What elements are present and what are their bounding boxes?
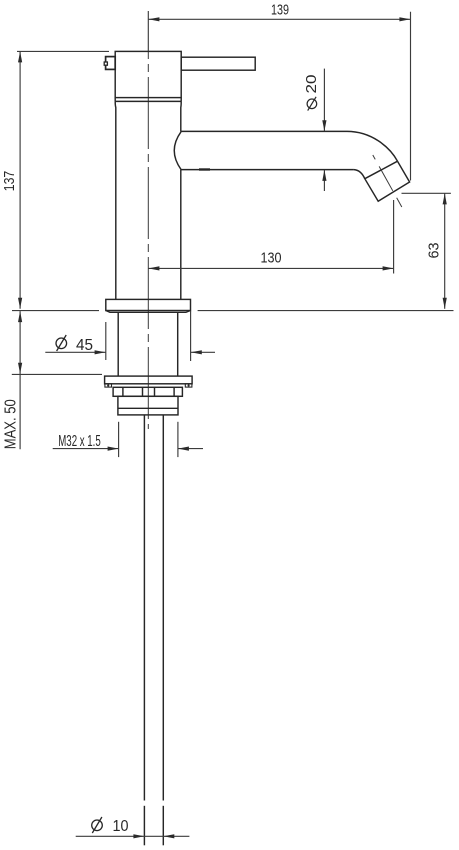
arrow 139 left	[148, 17, 159, 21]
svg-text:MAX. 50: MAX. 50	[3, 399, 20, 449]
dim d45 extension left	[105, 322, 107, 360]
outlet centerline	[373, 155, 402, 207]
mounting washer	[105, 376, 193, 384]
spout outlet aerator	[365, 161, 410, 201]
dim max50 extension bottom	[12, 373, 102, 375]
svg-text:130: 130	[261, 249, 282, 266]
spout inner bend curve	[354, 170, 365, 179]
svg-text:10: 10	[113, 818, 129, 835]
arrow 137 up	[18, 51, 22, 62]
handle head	[115, 51, 181, 97]
gland ring flats	[122, 387, 124, 396]
handle neck ring	[115, 100, 181, 102]
dim d10 line	[76, 835, 190, 837]
dia symbol of d45	[56, 338, 67, 349]
dim d45 extension right	[190, 311, 192, 361]
dim 137 extension top	[17, 50, 109, 52]
dim 139 extension left	[147, 11, 149, 51]
arrow m32 left	[178, 447, 189, 451]
arrow d20 up	[322, 170, 326, 181]
weld dash on spout bottom	[199, 168, 210, 170]
dim d45 line left	[45, 351, 105, 353]
dim 130 line	[148, 267, 393, 269]
arrow d45 right	[95, 350, 106, 354]
set screw	[106, 57, 116, 70]
spout end cap arc	[174, 132, 181, 170]
arrow max50 down	[18, 363, 22, 374]
body right wall upper	[180, 101, 182, 131]
dim m32 line right	[178, 448, 203, 450]
arrow d10 left	[163, 834, 174, 838]
arrow d20 down	[322, 120, 326, 131]
body left wall	[114, 101, 117, 299]
dim 130 extension right	[393, 200, 395, 274]
washer foot right	[185, 384, 192, 387]
svg-text:139: 139	[271, 1, 289, 18]
lever	[181, 57, 255, 70]
dim 63 line	[444, 193, 446, 308]
svg-text:20: 20	[303, 75, 320, 94]
svg-text:45: 45	[76, 337, 93, 354]
dia symbol of d10	[92, 820, 103, 831]
dim d20 line upper	[323, 69, 325, 132]
dim 137 line	[19, 51, 21, 308]
arrow d10 right	[133, 834, 144, 838]
arrow 63 down	[443, 298, 447, 309]
svg-text:63: 63	[425, 243, 442, 259]
lock nut	[118, 396, 178, 415]
dim 63 extension top	[402, 192, 451, 194]
svg-text:M32 x 1.5: M32 x 1.5	[58, 433, 101, 450]
dim 139 line	[148, 18, 410, 20]
base flange lip	[106, 311, 191, 313]
shank tube	[117, 312, 119, 376]
arrow m32 right	[108, 447, 119, 451]
dia symbol of d20	[307, 99, 317, 109]
dim m32 extension right	[177, 422, 179, 457]
arrow 130 left	[148, 266, 159, 270]
arrow 139 right	[399, 17, 410, 21]
base flange	[106, 299, 191, 310]
dim d20 line lower	[323, 170, 325, 191]
dim m32 extension left	[118, 422, 120, 457]
dim max50 line	[19, 311, 21, 449]
washer foot left	[105, 384, 112, 387]
deck line left	[12, 310, 99, 312]
deck line right	[198, 310, 454, 312]
body right wall lower	[180, 170, 182, 300]
arrow 63 up	[443, 193, 447, 204]
lock nut chamfer line	[118, 407, 178, 409]
dim 139 extension right	[410, 12, 412, 181]
arrow 130 right	[383, 266, 394, 270]
dim m32 line left	[53, 448, 119, 450]
arrow 137 down	[18, 298, 22, 309]
spout outer bend curve	[347, 131, 398, 161]
spout bottom line	[181, 169, 354, 171]
dim d45 line right	[191, 351, 215, 353]
spout top line	[181, 130, 347, 132]
centerline faucet axis	[147, 52, 149, 429]
gland ring	[113, 387, 182, 396]
arrow max50 up	[18, 311, 22, 322]
supply pipe	[143, 415, 145, 801]
arrow d45 left	[191, 350, 202, 354]
svg-text:137: 137	[1, 171, 18, 192]
